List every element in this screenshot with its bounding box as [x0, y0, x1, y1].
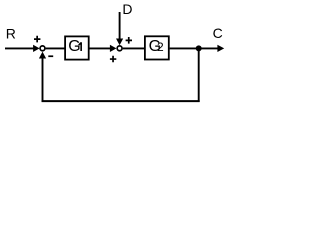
summing junction S1: [40, 46, 45, 51]
arrowhead output C: [217, 45, 224, 52]
wire feedback left vertical: [42, 55, 44, 102]
block G2: [145, 36, 169, 59]
arrowhead into summing junction S2: [110, 45, 117, 52]
plus sign at S2 forward input: [110, 56, 116, 63]
junction dot takeoff point: [196, 45, 202, 51]
arrowhead into summing junction S1: [33, 45, 40, 52]
wire S2 to G2: [123, 47, 146, 49]
arrowhead feedback into S1: [39, 52, 46, 59]
block G1: [65, 36, 89, 59]
svg-text:D: D: [122, 1, 132, 17]
wire G1 to summing junction S2: [90, 47, 111, 49]
arrowhead D into S2: [116, 39, 123, 46]
wire G2 to output: [170, 47, 218, 49]
minus sign at S1 feedback input: [48, 55, 53, 57]
wire R input: [5, 47, 34, 49]
wire feedback right vertical: [198, 48, 200, 102]
wire feedback bottom horizontal: [42, 100, 200, 102]
summing junction S2: [117, 46, 122, 51]
plus sign at S2 D-input: [126, 37, 132, 44]
svg-text:R: R: [6, 26, 16, 42]
plus sign at S1 input: [34, 36, 40, 43]
svg-text:G: G: [68, 38, 80, 55]
svg-text:2: 2: [157, 40, 164, 54]
wire D input: [119, 12, 121, 41]
wire S1 to G1: [46, 47, 66, 49]
svg-text:C: C: [213, 25, 223, 41]
